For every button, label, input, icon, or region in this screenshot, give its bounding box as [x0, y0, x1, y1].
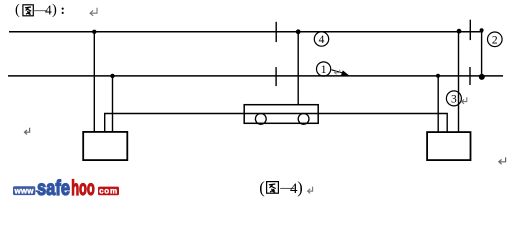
caption text (图—4)： top-left: [15, 2, 65, 18]
wire V5 drop from H1 to right box: [458, 32, 460, 133]
bottom caption (图—4): [259, 178, 303, 197]
paragraph mark after bottom caption: [308, 187, 313, 194]
label circle 4: [314, 32, 328, 46]
svg-text:): ): [297, 178, 303, 197]
svg-text:safe: safe: [37, 176, 70, 200]
tick mark on H1 right: [469, 20, 471, 40]
wire V6 jumper from H1 to H2: [481, 32, 483, 76]
paragraph mark after top caption: [90, 8, 97, 16]
svg-text:4: 4: [319, 34, 325, 46]
right anchor box: [427, 132, 470, 160]
wire H3 middle pull line with end stubs: [105, 114, 448, 133]
wire V1 drop from H1 to left box: [93, 32, 95, 133]
svg-text:(: (: [15, 2, 20, 18]
annotation arrow from label 1 to H2: [332, 70, 351, 77]
label circle 2: [488, 32, 503, 47]
svg-text:com: com: [99, 187, 118, 196]
svg-text:4: 4: [45, 3, 52, 18]
wire H2 second conductor: [8, 75, 503, 77]
junction dot on H2 at V6: [479, 74, 485, 80]
junction dot on H2 at V4: [436, 74, 440, 78]
sheave left circle: [255, 114, 266, 125]
svg-text:(: (: [259, 178, 265, 197]
sheave right circle: [298, 114, 309, 125]
label circle 3: [446, 91, 461, 106]
wire V2 drop from H2 to left box: [112, 76, 114, 133]
tick mark on H2 left: [275, 67, 277, 86]
puller frame (rect with two sheaves): [244, 105, 318, 124]
tick mark on H1 left: [275, 22, 277, 42]
svg-text:hoo: hoo: [71, 176, 95, 200]
left anchor box: [83, 132, 127, 160]
paragraph mark near label 1: [335, 70, 340, 75]
svg-text:): ): [52, 2, 57, 18]
svg-text:3: 3: [451, 94, 457, 106]
wire V4 drop from H2 to right box: [437, 76, 439, 133]
hanzi 图 (drawn) bottom caption: [267, 182, 279, 194]
svg-text:www: www: [13, 187, 34, 196]
safehoo logo: www block: [13, 186, 35, 195]
tick mark on H2 right: [469, 67, 471, 85]
svg-text:2: 2: [492, 35, 498, 47]
wire V3 drop from H1 to puller frame: [297, 32, 299, 105]
svg-text:1: 1: [321, 64, 327, 76]
safehoo logo: dash: [36, 190, 39, 192]
paragraph mark right of label 3: [462, 97, 467, 104]
hanzi 图 (drawn) top-left: [23, 5, 33, 16]
paragraph mark bottom right: [499, 157, 506, 164]
junction dot on H2 at V2: [110, 74, 114, 78]
paragraph mark left margin: [25, 128, 30, 135]
junction dot on H1 at V6: [480, 28, 484, 32]
safehoo logo: com block: [98, 187, 119, 196]
junction dot on H1 at V1: [92, 30, 96, 34]
junction dot on H1 at V3: [296, 29, 301, 34]
svg-text::: :: [61, 2, 66, 17]
junction dot on H1 at V5: [457, 29, 462, 34]
label circle 1: [317, 62, 331, 76]
wire H1 top conductor: [9, 31, 483, 33]
